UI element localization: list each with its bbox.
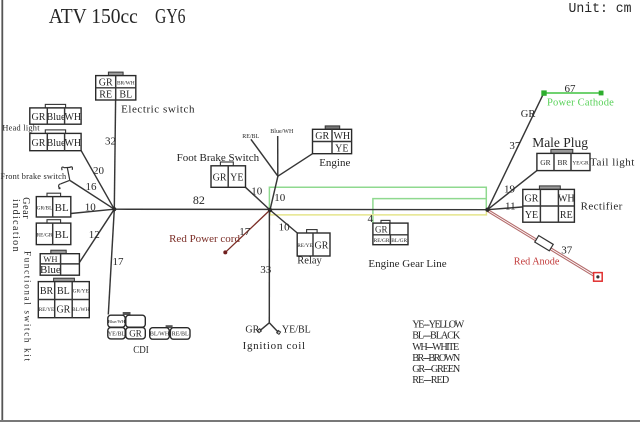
svg-text:YE/BL: YE/BL: [282, 324, 311, 335]
svg-text:GR---GREEN: GR---GREEN: [412, 364, 461, 375]
svg-text:WH: WH: [64, 112, 81, 123]
svg-text:GR: GR: [525, 193, 539, 204]
svg-text:YE: YE: [230, 173, 243, 184]
svg-text:GR: GR: [521, 109, 536, 120]
svg-text:82: 82: [193, 193, 205, 207]
svg-text:Electric switch: Electric switch: [121, 103, 195, 115]
svg-text:RE/YE: RE/YE: [39, 307, 55, 313]
svg-text:20: 20: [93, 165, 105, 177]
svg-text:GR: GR: [245, 324, 259, 335]
svg-text:GR: GR: [99, 77, 113, 88]
svg-text:GR/YE: GR/YE: [73, 289, 90, 295]
svg-text:Ignition coil: Ignition coil: [243, 340, 306, 352]
svg-text:RE/YE: RE/YE: [297, 243, 313, 249]
svg-text:RE/GR: RE/GR: [374, 238, 390, 244]
svg-text:indication: indication: [10, 199, 21, 253]
svg-text:RE/BL: RE/BL: [172, 332, 189, 338]
svg-text:Unit: cm: Unit: cm: [569, 2, 632, 17]
svg-text:BL: BL: [57, 286, 70, 297]
svg-text:4: 4: [368, 213, 374, 225]
svg-text:12: 12: [89, 229, 100, 241]
svg-text:GR: GR: [129, 329, 142, 339]
svg-text:BL/WH: BL/WH: [72, 307, 89, 313]
svg-text:RE/GR: RE/GR: [37, 232, 53, 238]
svg-text:Male Plug: Male Plug: [532, 135, 588, 150]
svg-text:BR/WH: BR/WH: [117, 80, 135, 86]
svg-text:WH: WH: [43, 254, 57, 264]
svg-text:GR: GR: [32, 112, 46, 123]
svg-text:Red Anode: Red Anode: [514, 257, 560, 268]
svg-text:Engine Gear Line: Engine Gear Line: [368, 258, 446, 270]
svg-text:BL/WH: BL/WH: [150, 332, 170, 338]
svg-text:37: 37: [561, 245, 573, 257]
svg-text:RE: RE: [99, 90, 112, 101]
svg-text:BL/GR: BL/GR: [391, 238, 407, 244]
svg-text:YE: YE: [335, 143, 348, 154]
svg-text:RE---RED: RE---RED: [412, 375, 449, 386]
svg-text:10: 10: [85, 202, 97, 214]
svg-text:Functional switch kit: Functional switch kit: [23, 251, 33, 363]
svg-text:Rectifier: Rectifier: [581, 200, 623, 212]
svg-text:Tail light: Tail light: [590, 156, 635, 168]
svg-text:10: 10: [251, 186, 263, 198]
svg-text:16: 16: [86, 181, 98, 193]
svg-text:Foot Brake Switch: Foot Brake Switch: [177, 152, 260, 164]
svg-text:GY6: GY6: [155, 4, 186, 28]
svg-text:BL: BL: [55, 229, 69, 241]
svg-text:GR: GR: [375, 224, 388, 234]
svg-text:BR: BR: [40, 286, 54, 297]
svg-text:GR: GR: [315, 131, 329, 142]
svg-text:33: 33: [260, 264, 272, 276]
svg-text:10: 10: [279, 222, 291, 234]
svg-text:GR: GR: [56, 304, 70, 315]
svg-text:WH: WH: [333, 131, 350, 142]
svg-text:YE/GR: YE/GR: [572, 161, 589, 167]
svg-text:67: 67: [565, 83, 577, 95]
svg-text:GR: GR: [315, 240, 329, 251]
svg-text:Blue: Blue: [47, 138, 66, 149]
svg-text:Head light: Head light: [2, 124, 40, 133]
svg-text:Power Cathode: Power Cathode: [547, 98, 614, 109]
svg-text:YE/BL: YE/BL: [108, 332, 126, 338]
svg-text:BR---BROWN: BR---BROWN: [412, 353, 461, 364]
svg-text:GR: GR: [213, 173, 227, 184]
svg-text:10: 10: [274, 192, 286, 204]
svg-text:YE---YELLOW: YE---YELLOW: [412, 320, 464, 331]
svg-text:WH---WHITE: WH---WHITE: [412, 342, 459, 353]
svg-text:BL: BL: [119, 90, 132, 101]
svg-text:RE/BL: RE/BL: [242, 134, 259, 140]
svg-text:WH: WH: [64, 138, 81, 149]
svg-text:Relay: Relay: [297, 255, 322, 266]
svg-text:GR/BL: GR/BL: [37, 205, 53, 211]
svg-text:Blue/WH: Blue/WH: [108, 319, 126, 324]
svg-text:ATV 150cc: ATV 150cc: [49, 4, 138, 28]
svg-text:WH: WH: [558, 193, 575, 204]
svg-text:11: 11: [505, 200, 516, 212]
svg-text:GR: GR: [32, 138, 46, 149]
svg-text:19: 19: [504, 183, 516, 195]
svg-text:BR: BR: [557, 158, 567, 167]
svg-text:37: 37: [509, 140, 521, 152]
svg-text:BL---BLACK: BL---BLACK: [412, 331, 461, 342]
svg-text:CDI: CDI: [133, 345, 149, 356]
svg-text:17: 17: [113, 256, 125, 268]
svg-text:Blue: Blue: [47, 112, 66, 123]
svg-text:32: 32: [105, 135, 116, 147]
svg-text:BL: BL: [55, 202, 69, 214]
svg-text:RE: RE: [560, 210, 573, 221]
svg-text:Red Power cord: Red Power cord: [169, 233, 240, 245]
svg-text:Engine: Engine: [319, 157, 350, 169]
svg-text:Blue: Blue: [40, 264, 61, 276]
svg-text:Blue/WH: Blue/WH: [270, 129, 294, 135]
svg-text:Front brake switch: Front brake switch: [1, 172, 67, 181]
svg-text:GR: GR: [540, 158, 550, 167]
svg-text:YE: YE: [525, 210, 538, 221]
svg-text:17: 17: [239, 226, 251, 238]
